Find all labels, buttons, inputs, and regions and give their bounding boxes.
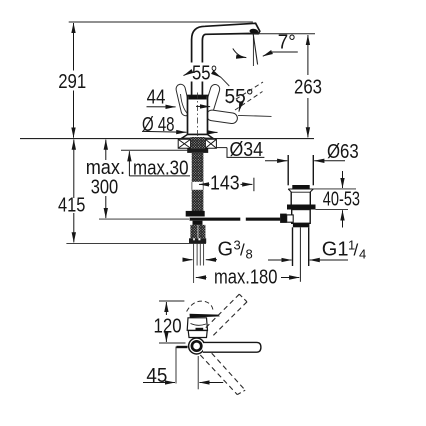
threaded shank upper segment	[192, 153, 204, 182]
plan view dashed lever up-right	[206, 294, 240, 328]
svg-text:G1: G1	[322, 239, 349, 261]
svg-text:8: 8	[246, 247, 253, 262]
threaded shank in deck	[191, 137, 206, 148]
svg-text:120: 120	[154, 315, 182, 337]
dimension max.180	[196, 267, 299, 289]
svg-text:415: 415	[58, 195, 85, 217]
drain side knob	[280, 214, 287, 223]
faucet body	[188, 96, 208, 135]
svg-text:Ø63: Ø63	[327, 141, 359, 163]
thread label G 3/8	[183, 238, 253, 262]
svg-text:7°: 7°	[278, 31, 296, 53]
node reference line rod level	[99, 218, 189, 220]
supply fitting band	[186, 211, 205, 217]
svg-text:300: 300	[91, 177, 119, 199]
body centerline	[196, 93, 198, 142]
hose connector right	[198, 225, 205, 238]
plan view spout bar	[203, 342, 261, 352]
deck mounting surface line	[20, 138, 314, 140]
plan view cartridge body	[188, 331, 207, 338]
dimension 415	[58, 140, 85, 243]
svg-text:4: 4	[359, 247, 366, 262]
angle annotation 7 degrees	[233, 31, 315, 66]
dimension diameter 48	[142, 114, 218, 136]
svg-text:Ø 48: Ø 48	[142, 114, 175, 136]
svg-text:Ø34: Ø34	[230, 139, 264, 161]
svg-text:44: 44	[147, 86, 166, 108]
plan view lever blade	[190, 314, 220, 318]
ghost lever left position	[175, 83, 191, 116]
dimension diameter 63	[265, 141, 359, 163]
flexible hose lines	[193, 243, 195, 283]
svg-text:55°: 55°	[192, 62, 217, 84]
dimension max.300	[86, 140, 125, 219]
dimension 44	[147, 86, 211, 108]
svg-text:291: 291	[58, 71, 86, 93]
dimension 120	[154, 301, 186, 343]
drain tailpipe	[292, 227, 294, 266]
drain locknut	[287, 205, 316, 210]
ghost lever horizontal position	[206, 109, 238, 124]
node reference line hose end level	[66, 242, 206, 244]
drain plug band	[292, 185, 309, 189]
deck underside line left	[121, 149, 191, 151]
escutcheon wedge left	[178, 139, 190, 148]
pop-up rod right segment	[246, 218, 280, 221]
dimension 40-53	[312, 171, 360, 228]
wire top reference line	[69, 21, 253, 23]
dimension 263	[294, 35, 322, 137]
threaded shank lower segment	[192, 190, 204, 212]
drain flange cylinder	[287, 155, 289, 185]
pop-up rod left segment	[190, 218, 241, 221]
svg-text:40-53: 40-53	[323, 189, 360, 211]
body top cap band	[188, 96, 206, 100]
svg-text:143: 143	[210, 173, 240, 195]
svg-text:/: /	[354, 241, 359, 260]
fitting center block	[193, 221, 203, 225]
callout diameter 34	[227, 139, 264, 161]
dimension 143	[199, 173, 254, 195]
dimension max.30	[129, 151, 190, 179]
drain body	[292, 210, 311, 224]
svg-text:55°: 55°	[225, 86, 254, 108]
spout aerator nozzle	[249, 28, 258, 34]
thread label G1 1/4	[268, 238, 366, 262]
plan view body circle	[189, 338, 205, 354]
plan view pop-up rod stub	[177, 346, 188, 348]
drain neck	[290, 192, 292, 205]
plan view handle dark detail	[196, 328, 204, 331]
escutcheon wedge right	[205, 139, 216, 148]
deck underside line right	[216, 147, 227, 149]
dashed lever outline upper right	[230, 82, 264, 103]
svg-text:max.180: max.180	[214, 267, 277, 289]
svg-text:45: 45	[146, 365, 167, 387]
body base flare	[182, 135, 214, 139]
mounting nut band	[187, 148, 208, 153]
lever swing arc	[181, 94, 191, 116]
drain neck flare	[288, 189, 291, 192]
svg-text:263: 263	[294, 77, 322, 99]
plan view lever swing arc dashed	[187, 301, 213, 311]
drain side box	[287, 215, 294, 222]
dimension 45	[143, 347, 223, 390]
connector lower band	[189, 238, 206, 243]
angle label 55 right	[225, 86, 272, 117]
plan view handle neck	[187, 318, 207, 331]
plan view dashed lever down-right	[200, 355, 237, 395]
ghost lever right position	[203, 83, 221, 116]
drain bottom band	[293, 223, 310, 227]
svg-text:G: G	[218, 239, 234, 261]
svg-text:max.30: max.30	[133, 157, 189, 179]
threaded shank break lines	[191, 182, 193, 190]
angle label 55 left	[184, 62, 230, 86]
dimension 291	[58, 23, 86, 138]
spout outline	[192, 23, 260, 96]
svg-text:/: /	[240, 241, 245, 260]
hose connector left	[190, 225, 197, 238]
